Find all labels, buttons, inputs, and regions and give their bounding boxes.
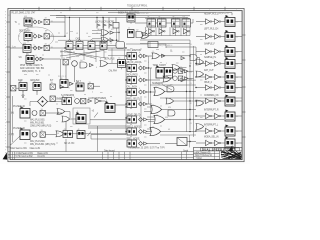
wire M2 stub bbox=[16, 87, 19, 89]
arrow A15 bbox=[110, 39, 114, 42]
rounded latch U5B bbox=[116, 42, 125, 49]
svg-text:43: 43 bbox=[128, 90, 130, 92]
svg-text:6: 6 bbox=[139, 100, 140, 102]
inverter pair SAMPLE_F bbox=[206, 49, 212, 54]
or gate G27 pulser2 bbox=[56, 131, 64, 137]
input connector INCA_RIGD bbox=[127, 77, 137, 84]
wire out RESAP_PLS_D bbox=[235, 21, 242, 23]
wire CAL to mid column bbox=[125, 63, 128, 65]
wire link DAT_OUT bbox=[212, 76, 215, 78]
or gate G17 right low bbox=[196, 100, 204, 106]
terminal box TB4 bbox=[63, 60, 68, 65]
input connector dark box J10 bbox=[127, 14, 135, 24]
pulser register dark box U13 bbox=[20, 128, 30, 140]
wire G14 fanin b bbox=[145, 133, 150, 135]
wire top-right run to unit1 bbox=[188, 12, 232, 14]
junction dot rail a bbox=[118, 32, 119, 33]
buffer XBUF_2 bbox=[215, 85, 221, 90]
svg-text:PULSER_16: PULSER_16 bbox=[13, 128, 26, 130]
wire feed DAT_OUT bbox=[196, 76, 206, 78]
or gate G29 bbox=[101, 37, 109, 43]
buffer MODA_SEL_IN bbox=[215, 140, 221, 145]
svg-text:MRN (DATA) TL 9: MRN (DATA) TL 9 bbox=[22, 70, 41, 73]
slash mark bbox=[94, 113, 98, 118]
border zone tick marks top bbox=[39, 7, 225, 11]
svg-text:2: 2 bbox=[206, 61, 207, 63]
svg-text:L2: L2 bbox=[66, 33, 68, 35]
wire K5 pin stub bbox=[22, 91, 24, 96]
svg-text:1: 1 bbox=[166, 63, 167, 65]
input connector MOVE_DEL(T) bbox=[127, 116, 137, 123]
or gate G3 SETA bbox=[100, 61, 108, 67]
svg-text:L3: L3 bbox=[76, 33, 78, 35]
svg-text:SAMPLE_PL: SAMPLE_PL bbox=[204, 56, 217, 59]
d-flipflop U19 bbox=[148, 42, 158, 48]
wire vertical x12 left rail bbox=[11, 96, 13, 142]
svg-text:6: 6 bbox=[34, 19, 35, 21]
wire D1 hook bbox=[30, 101, 38, 103]
svg-text:G2: G2 bbox=[136, 30, 138, 32]
inverter pair RESAP_PLS_D bbox=[206, 19, 212, 24]
revision table left cell dividers bbox=[10, 152, 15, 160]
svg-text:8: 8 bbox=[153, 105, 154, 107]
svg-text:mRA 2 Assem-29: mRA 2 Assem-29 bbox=[195, 151, 212, 154]
svg-text:15MS_PAD (MIN_PLS): 15MS_PAD (MIN_PLS) bbox=[30, 125, 52, 128]
svg-text:43: 43 bbox=[190, 83, 192, 85]
svg-text:COMPARA_OK: COMPARA_OK bbox=[204, 94, 219, 97]
wire out INTERRUPT_R bbox=[235, 115, 242, 117]
svg-text:LACR LACR LACRD: LACR LACR LACRD bbox=[95, 21, 115, 24]
relay K2 bbox=[24, 33, 32, 43]
wire feed RESAP_PLS_D bbox=[196, 21, 206, 23]
wire U11 out bbox=[187, 141, 196, 143]
wire trak diag down bbox=[162, 85, 172, 91]
or gate G16 right mid bbox=[196, 71, 204, 77]
svg-text:8: 8 bbox=[156, 87, 157, 89]
title block approval stamp mark bbox=[228, 145, 233, 151]
terminal box TB1 bbox=[44, 19, 49, 24]
start register dark box U10B bbox=[165, 68, 173, 79]
svg-text:R1_B7_DWG_1732 1747: R1_B7_DWG_1732 1747 bbox=[12, 13, 37, 15]
wire XXX row bbox=[147, 55, 152, 57]
zone letter smudges left margin bbox=[9, 15, 11, 157]
terminal box TB10 bbox=[81, 98, 86, 103]
wire mid column vertical x150 bbox=[150, 68, 152, 132]
contact symbol NB_OF_ACCOL bbox=[139, 66, 143, 70]
wire latch rail y40 bbox=[58, 39, 114, 41]
divider circle CD2 bbox=[32, 132, 37, 137]
svg-text:L5: L5 bbox=[96, 33, 98, 35]
wire out SAMPLE_F bbox=[235, 51, 242, 53]
vertical bus left cluster bbox=[64, 22, 66, 36]
revision table horizontal rule 2 bbox=[8, 153, 194, 155]
input connector J12 bbox=[63, 131, 73, 138]
wire drop into table x97 bbox=[97, 135, 99, 152]
svg-text:6: 6 bbox=[34, 45, 35, 47]
revision table right cell dividers bbox=[182, 152, 187, 160]
wire top rail y12 extension bbox=[108, 12, 188, 14]
svg-text:6: 6 bbox=[139, 88, 140, 90]
fold mark black wedge bottom-left corner bbox=[3, 152, 8, 159]
contact symbol ON__INCH bbox=[139, 90, 143, 94]
buffer INTERRUPT_L bbox=[215, 128, 221, 133]
svg-text:1: 1 bbox=[236, 9, 237, 11]
wire chips bottom run bbox=[140, 43, 190, 45]
wire feed MODA_SEL_IN bbox=[196, 142, 206, 144]
wire out XBUF_2 bbox=[235, 87, 242, 89]
wire diagonal into pulser2 bbox=[11, 136, 21, 145]
junction dots mid rails bbox=[125, 47, 126, 48]
svg-text:Mod. Seal no. 831 Class n: Mod. Seal no. 831 Class no 81 bbox=[11, 148, 41, 150]
wire bus drop 1 bbox=[96, 17, 98, 24]
svg-text:4F3: 4F3 bbox=[26, 54, 29, 56]
svg-text:SAMPLE_F: SAMPLE_F bbox=[204, 43, 216, 46]
arrow A13 trak bbox=[181, 79, 185, 82]
register dark box U18 bbox=[77, 131, 85, 139]
svg-text:43: 43 bbox=[128, 54, 130, 56]
wire link SAMPLE_F bbox=[212, 51, 215, 53]
svg-text:6: 6 bbox=[139, 128, 140, 130]
svg-text:8: 8 bbox=[153, 127, 154, 129]
wire A15 to rail bbox=[114, 39, 119, 41]
buffer G20 bbox=[95, 98, 101, 103]
inverter pair XBUF_2 bbox=[206, 85, 212, 90]
contact symbol REEL_MODE bbox=[139, 142, 143, 146]
svg-text:43: 43 bbox=[62, 96, 64, 98]
sheet paper tint bbox=[8, 9, 244, 162]
svg-text:426: 426 bbox=[189, 79, 192, 81]
wire U19 feed bbox=[126, 43, 148, 45]
svg-text:6: 6 bbox=[74, 97, 75, 99]
and gate G9 bbox=[190, 55, 197, 61]
wire title block feed vertical bbox=[189, 135, 191, 147]
svg-text:2: 2 bbox=[206, 34, 207, 36]
buffer box U11 bbox=[177, 138, 187, 146]
slash mark 2 bbox=[88, 132, 92, 137]
svg-text:43: 43 bbox=[128, 118, 130, 120]
output flag register RESAP_PLS_D bbox=[225, 15, 235, 27]
latch U4 bbox=[88, 42, 95, 50]
svg-text:XBUF_2: XBUF_2 bbox=[204, 82, 213, 84]
input connector REEL_MODE bbox=[127, 140, 137, 147]
svg-text:43: 43 bbox=[64, 129, 66, 131]
wire trak row b bbox=[188, 77, 193, 79]
junction dots global pass bbox=[64, 36, 65, 37]
terminal box TB9 bbox=[88, 84, 93, 89]
wire G19 out bbox=[70, 118, 76, 120]
output flag register XBUF_2 bbox=[225, 81, 235, 93]
svg-text:DAT_OUT: DAT_OUT bbox=[204, 69, 214, 72]
vertical rail x116b bbox=[116, 28, 118, 42]
wire G8 to G9 bbox=[165, 55, 190, 57]
wire bus to top rail bbox=[64, 15, 66, 22]
outlined holder box bbox=[73, 108, 90, 124]
wire G12 fanin b bbox=[144, 111, 151, 113]
title block outline bbox=[194, 147, 243, 159]
annotation smudge dashes bbox=[18, 13, 226, 143]
svg-text:93: 93 bbox=[159, 24, 161, 26]
wire D1 to J11 bbox=[48, 101, 63, 103]
output flag register INTERRUPT_L bbox=[225, 125, 235, 137]
or gate G19 bbox=[62, 116, 70, 122]
divider circle CD4 bbox=[173, 69, 177, 73]
divider circle CD3 bbox=[75, 99, 80, 104]
vertical bus mid-right A bbox=[189, 40, 191, 130]
svg-text:6: 6 bbox=[96, 67, 97, 69]
contact symbol XXX_ERETION bbox=[139, 54, 143, 58]
wire out MODA_SEL_IN bbox=[235, 142, 242, 144]
terminal box TB11 bbox=[178, 69, 183, 74]
wire feed LEFT_PLS_CH bbox=[196, 36, 206, 38]
svg-text:PPM/ SHAM/ DARN TL: PPM/ SHAM/ DARN TL bbox=[20, 64, 44, 67]
wire bus drop 2 bbox=[102, 17, 104, 24]
buffer RESAP_PLS_D bbox=[215, 19, 221, 24]
svg-text:6: 6 bbox=[148, 62, 149, 64]
svg-text:8: 8 bbox=[157, 115, 158, 117]
svg-text:CAL P04: CAL P04 bbox=[109, 69, 118, 72]
wire G13 out long bbox=[165, 119, 224, 121]
wire G13 fanin a bbox=[147, 116, 154, 118]
or gate G28 bbox=[101, 30, 109, 36]
wire hook row long y135 right bbox=[160, 134, 196, 136]
wire row4 short bbox=[44, 58, 61, 60]
wire link x91 bbox=[90, 135, 92, 140]
wire vertical x141 mid bbox=[140, 96, 142, 128]
wire link MODA_SEL_IN bbox=[212, 142, 215, 144]
svg-text:43: 43 bbox=[128, 66, 130, 68]
arrow A11 trak bbox=[181, 57, 185, 60]
arrow A16 bbox=[185, 70, 189, 73]
svg-text:43: 43 bbox=[128, 142, 130, 144]
terminal box TB3 bbox=[44, 45, 49, 50]
grouping ellipse around decoder rows bbox=[18, 27, 54, 48]
memory flag register U16 bbox=[105, 101, 115, 113]
or gate G18 right low bbox=[196, 124, 204, 130]
buffer SAMPLE_PL bbox=[215, 61, 221, 66]
divider circle CD5 bbox=[173, 76, 177, 80]
wire link INTERRUPT_L bbox=[212, 130, 215, 132]
counter chip U6 bbox=[147, 18, 156, 27]
wire row3 long run bbox=[49, 47, 126, 49]
wire down from TB4 bbox=[65, 65, 67, 82]
wire G29 fan in b bbox=[92, 41, 101, 43]
wire chip link 3 bbox=[191, 22, 194, 24]
wire latch tops to bus bbox=[69, 17, 71, 39]
or gate G14 bbox=[150, 127, 161, 135]
svg-text:NO 21 BC: NO 21 BC bbox=[64, 143, 75, 145]
svg-text:426: 426 bbox=[189, 72, 192, 74]
svg-text:43: 43 bbox=[128, 102, 130, 104]
wire REEL2 row bbox=[147, 131, 152, 133]
svg-text:ON__INCH: ON__INCH bbox=[127, 86, 138, 88]
gate cluster extra G22 bbox=[167, 86, 174, 92]
junction row3 bbox=[64, 47, 65, 48]
wire chip rail y40 bbox=[140, 39, 190, 41]
film edge sprocket dots left margin bbox=[5, 11, 7, 159]
or gate G13 bbox=[154, 115, 165, 123]
svg-text:2: 2 bbox=[206, 127, 207, 129]
svg-text:5 Httr Gmd no 832 Cl: 5 Httr Gmd no 832 Cl no 81 bbox=[16, 155, 46, 158]
svg-text:2: 2 bbox=[206, 140, 207, 142]
vertical bus mid-right B bbox=[193, 46, 195, 137]
contact symbol REEL2_MODE bbox=[139, 130, 143, 134]
relay K4 bbox=[26, 56, 34, 66]
wire U18 out bbox=[91, 134, 126, 136]
svg-text:43: 43 bbox=[128, 78, 130, 80]
svg-text:6: 6 bbox=[139, 52, 140, 54]
wire link RESAP_PLS_D bbox=[212, 21, 215, 23]
svg-text:MIN_PULS 801 (MIN_PLS): MIN_PULS 801 (MIN_PLS) bbox=[30, 144, 56, 146]
wire latch row interconnect bbox=[73, 45, 76, 47]
output flag register DAT_OUT bbox=[225, 71, 235, 83]
svg-text:TRW-7700 Assy 92: TRW-7700 Assy 92 bbox=[195, 154, 213, 157]
wire mid column vertical x148 bbox=[148, 56, 150, 104]
svg-text:G9: G9 bbox=[170, 51, 172, 53]
revision table horizontal rule 1 bbox=[8, 151, 194, 153]
svg-text:SN: SN bbox=[19, 57, 22, 59]
wire vertical x97 bbox=[97, 126, 99, 135]
inverter pair COMPARA_OK bbox=[206, 98, 212, 103]
svg-text:5: 5 bbox=[116, 9, 117, 11]
svg-text:2: 2 bbox=[206, 113, 207, 115]
junction dots right rails bbox=[189, 55, 190, 56]
or gate G12 bbox=[151, 105, 162, 113]
wire G14 fanin a bbox=[147, 128, 150, 130]
output flag register INTERRUPT_R bbox=[225, 110, 235, 122]
terminal box TB6 bbox=[50, 96, 55, 101]
svg-text:U9: U9 bbox=[183, 16, 185, 18]
svg-text:43: 43 bbox=[45, 44, 47, 46]
output flag register MODA_SEL_IN bbox=[225, 137, 235, 149]
wire chip rail y35 bbox=[143, 35, 190, 37]
svg-text:4F3: 4F3 bbox=[24, 16, 27, 18]
svg-text:INTERRUPT_R: INTERRUPT_R bbox=[204, 110, 219, 112]
latch clock bubbles bbox=[69, 40, 105, 42]
wire link XBUF_2 bbox=[212, 87, 215, 89]
arrow REEL_MODE bbox=[144, 142, 148, 145]
wire horizontal mid y55 bbox=[108, 55, 126, 57]
wire link COMPARA_OK bbox=[212, 100, 215, 102]
svg-text:4F3: 4F3 bbox=[24, 31, 27, 33]
bus drop tag 1 bbox=[97, 24, 100, 29]
svg-text:8: 8 bbox=[23, 9, 24, 11]
svg-text:2: 2 bbox=[206, 90, 207, 92]
arrow A12 trak bbox=[181, 69, 185, 72]
svg-text:6: 6 bbox=[139, 140, 140, 142]
svg-text:2: 2 bbox=[206, 75, 207, 77]
svg-text:INCA_RIGD: INCA_RIGD bbox=[127, 73, 139, 76]
svg-text:4: 4 bbox=[92, 92, 93, 94]
wire double run lower bbox=[88, 127, 126, 129]
wire row1 to bus bbox=[49, 21, 65, 23]
or gate G8 bbox=[152, 53, 160, 59]
svg-text:M1: M1 bbox=[111, 29, 113, 31]
wire out COMPARA_OK bbox=[235, 100, 242, 102]
wire INCA row bbox=[147, 79, 160, 81]
wire row4 down to U14 bbox=[60, 59, 62, 80]
inverter pair INTERRUPT_L bbox=[206, 128, 212, 133]
inverter gate G1 bbox=[72, 61, 78, 67]
wire out LEFT_PLS_CH bbox=[235, 36, 242, 38]
wire G28 fan in a bbox=[92, 30, 101, 32]
svg-text:6: 6 bbox=[85, 9, 86, 11]
and gate G7 bbox=[136, 32, 143, 38]
wire vertical x112 bbox=[111, 49, 113, 64]
wire feed SAMPLE_F bbox=[196, 51, 206, 53]
counter chip U8 bbox=[172, 18, 181, 27]
wire link INTERRUPT_R bbox=[212, 115, 215, 117]
counter chip U8B bbox=[182, 18, 191, 27]
border zone tick marks right bbox=[242, 35, 246, 137]
svg-text:624: 624 bbox=[168, 107, 171, 109]
bus drop tag 2 bbox=[109, 24, 112, 29]
wire G8 out bbox=[160, 55, 166, 57]
buffer INTERRUPT_R bbox=[215, 113, 221, 118]
buffer DAT_OUT bbox=[215, 74, 221, 79]
contact symbol CR4 bbox=[35, 57, 39, 61]
wire pulser1 out bbox=[45, 112, 62, 114]
wire link LEFT_PLS_CH bbox=[212, 36, 215, 38]
wire G3 to CAL box bbox=[108, 63, 118, 65]
terminal box TB8 bbox=[40, 132, 45, 137]
svg-text:U7: U7 bbox=[158, 16, 160, 18]
revision table mid cell dividers bbox=[103, 152, 131, 160]
title block signature scribble bbox=[221, 151, 242, 159]
inverter G4 under U6 bbox=[149, 29, 155, 34]
register dark box U14 bbox=[60, 80, 68, 88]
svg-text:6: 6 bbox=[139, 116, 140, 118]
horizontal bus rail lower bbox=[56, 16, 188, 18]
arrow A4 bbox=[40, 57, 44, 60]
wire U15 out bbox=[93, 85, 100, 87]
or gate G25 trak cluster bbox=[172, 65, 180, 71]
wire trak a13 out bbox=[185, 79, 196, 81]
svg-text:Date Issued: Date Issued bbox=[104, 150, 115, 153]
register dark box U15 bbox=[76, 83, 84, 91]
svg-text:G4: G4 bbox=[80, 60, 82, 62]
arrow A1 bbox=[39, 20, 43, 23]
wire diagonal into chips bbox=[143, 30, 147, 35]
buffer SAMPLE_F bbox=[215, 49, 221, 54]
arrow A8 bbox=[60, 85, 64, 88]
svg-text:J1: J1 bbox=[128, 28, 130, 30]
arrow ON__INCH bbox=[144, 90, 148, 93]
arrow A2 bbox=[39, 35, 43, 38]
svg-text:PULSER_16: PULSER_16 bbox=[13, 106, 26, 108]
divider circle CD1 bbox=[32, 111, 37, 116]
arrow NB_OF_ACCOL bbox=[144, 66, 148, 69]
wire K6 pin stub bbox=[36, 91, 38, 96]
memory flag register U17 bbox=[76, 112, 86, 124]
junction dot rail b bbox=[116, 40, 117, 41]
svg-text:43: 43 bbox=[190, 123, 192, 125]
wire down from G1 bbox=[74, 66, 76, 82]
svg-text:MIN_PULS 801: MIN_PULS 801 bbox=[30, 123, 45, 125]
wire bus drop 3 bbox=[108, 17, 110, 24]
start register dark box U10A bbox=[156, 65, 164, 78]
wire chip link 1 bbox=[156, 22, 158, 24]
wire long y139 bbox=[91, 138, 126, 140]
wire ON row bbox=[147, 91, 155, 93]
svg-text:L4: L4 bbox=[86, 33, 88, 35]
input connector REEL_SEL(T) bbox=[127, 101, 137, 108]
output flag register COMPARA_OK bbox=[225, 95, 235, 107]
title block row rule 1 bbox=[194, 153, 220, 155]
svg-text:1747 1757 176: 1747 1757 176 bbox=[137, 13, 148, 15]
svg-text:Serial: Serial bbox=[183, 150, 189, 153]
wire A14 to rail bbox=[114, 32, 119, 34]
svg-text:4F3: 4F3 bbox=[23, 43, 26, 45]
